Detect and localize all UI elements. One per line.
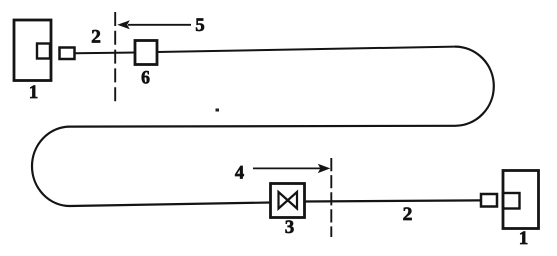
right U-bend (455, 47, 494, 126)
top pipe run (157, 47, 455, 52)
valve bowtie symbol (279, 192, 298, 209)
scan speck (216, 109, 220, 112)
top measuring-section dashed line (114, 12, 116, 102)
svg-text:5: 5 (195, 15, 205, 36)
port notch on bottom-right device (503, 193, 520, 209)
coupler (top) (60, 48, 75, 60)
bottom pipe run (valve to coupler) (305, 200, 481, 201)
port notch on top-left device (37, 44, 50, 59)
svg-text:1: 1 (29, 82, 39, 103)
left U-bend (32, 127, 70, 206)
wire: coupler to box 6 (75, 52, 135, 55)
valve 3 body (271, 184, 305, 218)
middle pipe run (70, 125, 455, 128)
device 1 (bottom-right instrument body) (503, 171, 539, 229)
coupler (bottom) (481, 194, 497, 207)
svg-text:1: 1 (519, 228, 529, 249)
svg-text:2: 2 (91, 27, 101, 48)
arrow 4 (flow direction, pointing right) (253, 167, 321, 169)
svg-text:4: 4 (235, 164, 244, 184)
box 6 (inline flow element) (135, 41, 157, 65)
device 1 (top-left instrument body) (14, 20, 51, 81)
svg-text:2: 2 (403, 204, 413, 225)
arrow 5 (flow direction, pointing left) (128, 24, 191, 26)
svg-text:6: 6 (141, 68, 150, 89)
svg-text:3: 3 (285, 217, 295, 238)
bottom pipe run (left of valve) (70, 203, 271, 207)
bottom measuring-section dashed line (330, 158, 332, 237)
